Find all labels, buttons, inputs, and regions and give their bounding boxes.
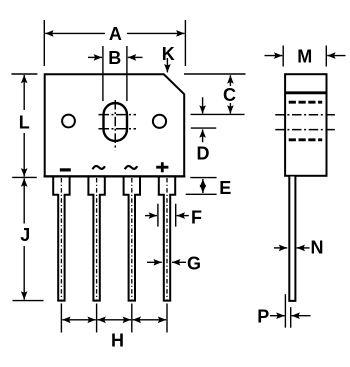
dimension L tick top: [11, 73, 37, 75]
svg-text:L: L: [19, 113, 30, 133]
slot vertical centerline: [114, 100, 116, 150]
slot horizontal centerline lower: [99, 128, 137, 130]
dimension L arrow down: [23, 133, 25, 177]
svg-text:H: H: [111, 330, 124, 350]
dimension C extension line top: [184, 73, 246, 75]
dimension D arrow down: [202, 97, 204, 113]
side view heatsink line: [285, 91, 326, 94]
dimension E extension line top: [190, 177, 216, 179]
lead 4: [159, 177, 175, 301]
dimension F extension line right: [175, 204, 177, 227]
dimension C extension line bottom: [191, 113, 245, 115]
terminal symbol ac tilde 2: [125, 166, 137, 169]
lead 2: [88, 177, 104, 301]
svg-text:P: P: [257, 306, 269, 326]
center slot (oval hole): [104, 103, 128, 141]
dimension P arrow left: [270, 315, 285, 317]
dimension L arrow up: [23, 75, 25, 110]
dimension E extension line bottom: [186, 193, 217, 195]
dimension B extension line left: [102, 46, 104, 101]
dimension J bottom tick: [13, 300, 44, 302]
dimension A extension line left: [43, 20, 45, 66]
dimension H tick 1: [60, 304, 62, 333]
dimension G arrow left: [147, 261, 162, 263]
svg-text:E: E: [219, 178, 231, 198]
dimension N arrow left: [274, 247, 287, 249]
lead 1 centerline: [60, 178, 62, 300]
dimension D extension line: [191, 127, 216, 129]
svg-text:J: J: [20, 225, 30, 245]
svg-text:D: D: [197, 144, 210, 164]
dimension M extension line right: [325, 46, 327, 67]
svg-text:C: C: [223, 85, 236, 105]
body bottom edge redraw: [44, 175, 186, 177]
dimension J arrow down: [23, 246, 25, 300]
lead 3: [124, 177, 140, 301]
dimension H tick 4: [166, 304, 168, 333]
dimension A extension line right: [184, 20, 186, 66]
dimension M extension line left: [282, 46, 284, 67]
dimension P extension line right: [290, 307, 292, 328]
side view hidden dashed line upper: [289, 101, 323, 104]
svg-text:A: A: [109, 24, 122, 44]
dimension A arrow right: [127, 32, 185, 34]
dimension A arrow left: [45, 32, 105, 34]
lead 3 centerline: [131, 178, 133, 300]
dimension F extension line left: [157, 204, 159, 227]
dimension H arrow 1: [62, 319, 96, 321]
dimension L tick bottom: [12, 176, 37, 178]
mounting hole right: [153, 115, 166, 128]
dimension B arrow right: [128, 56, 143, 58]
terminal symbol ac tilde 1: [93, 166, 105, 169]
lead 1: [53, 177, 69, 301]
side view centerline upper: [275, 114, 335, 116]
body outline side view: [285, 74, 326, 176]
dimension D arrow up: [202, 129, 204, 142]
dimension M arrow right: [327, 55, 345, 57]
svg-text:M: M: [297, 46, 312, 66]
terminal symbol plus: [156, 162, 168, 172]
dimension F arrow left: [145, 215, 157, 217]
dimension P extension line left: [284, 294, 286, 328]
svg-text:G: G: [187, 254, 201, 274]
slot horizontal centerline upper: [99, 114, 137, 116]
svg-text:N: N: [311, 237, 324, 257]
terminal symbol minus: [60, 168, 71, 171]
dimension C arrow up: [229, 75, 231, 86]
svg-text:K: K: [162, 44, 175, 64]
dimension B extension line right: [126, 46, 128, 101]
lead 4 centerline: [166, 178, 168, 300]
dimension N arrow right: [297, 247, 310, 249]
dimension K arrow: [166, 58, 168, 72]
mounting hole left: [62, 115, 75, 128]
dimension P arrow right: [292, 315, 311, 317]
side view lead: [289, 177, 295, 301]
dimension F arrow right: [177, 215, 189, 217]
lead 2 centerline: [96, 178, 98, 300]
dimension H tick 2: [96, 304, 98, 333]
dimension E double arrow: [202, 179, 204, 193]
dimension H arrow 2: [97, 319, 131, 321]
dimension M arrow left: [265, 55, 283, 57]
dimension B arrow left: [88, 56, 102, 58]
dimension C arrow down: [229, 103, 231, 114]
side view centerline lower: [275, 129, 335, 131]
dimension G arrow right: [172, 261, 186, 263]
svg-text:F: F: [191, 207, 202, 227]
side view hidden dashed line lower: [289, 138, 323, 141]
svg-text:B: B: [108, 48, 121, 68]
dimension J arrow up: [23, 178, 25, 223]
dimension H tick 3: [131, 304, 133, 333]
body outline front view: [45, 74, 185, 176]
dimension H arrow 3: [133, 319, 167, 321]
